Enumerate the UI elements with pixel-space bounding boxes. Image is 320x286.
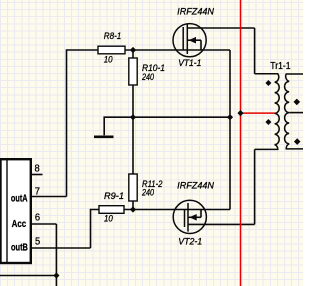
- svg-text:IRFZ44N: IRFZ44N: [177, 7, 214, 17]
- junction node red rail: [237, 110, 243, 116]
- transistor VT2: [173, 200, 254, 233]
- wire: bottom left horizontal: [0, 275, 56, 277]
- svg-text:VT2-1: VT2-1: [178, 236, 202, 246]
- wire: mid node down to R11: [132, 117, 134, 174]
- wire: R9 to VT2 gate row: [124, 209, 230, 211]
- wire: pin7 riser up to R8 row: [67, 50, 99, 197]
- wire: R8 output to VT1 gate row: [125, 49, 230, 51]
- svg-text:10: 10: [104, 55, 113, 65]
- wire: VT1 drain to transformer top: [254, 28, 256, 74]
- wire: center vertical VT1 source to VT2 source: [229, 50, 231, 210]
- svg-text:VT1-1: VT1-1: [178, 58, 201, 68]
- secondary polarity dot lower: [294, 138, 301, 145]
- red wire to transformer center tap: [241, 112, 275, 114]
- svg-text:7: 7: [35, 186, 41, 197]
- ground: [94, 135, 114, 138]
- wire: pin5 riser up to R9: [91, 210, 100, 249]
- svg-text:R8-1: R8-1: [104, 31, 122, 41]
- junction node mid divider: [130, 114, 136, 120]
- secondary polarity dot upper: [294, 99, 301, 106]
- wire: R10 bottom to mid node: [132, 85, 134, 117]
- red power rail vertical: [240, 0, 242, 286]
- svg-text:R9-1: R9-1: [104, 191, 124, 201]
- primary polarity dot lower: [265, 119, 271, 125]
- svg-text:240: 240: [141, 188, 154, 198]
- svg-text:10: 10: [104, 213, 113, 223]
- junction node R8/R10: [130, 47, 136, 53]
- pin 6 wire: [31, 223, 57, 225]
- pin 5 wire: [31, 247, 91, 249]
- svg-text:Tr1-1: Tr1-1: [270, 61, 291, 72]
- svg-text:6: 6: [35, 213, 41, 224]
- resistor R9-1: [99, 206, 124, 214]
- resistor R10-1: [129, 58, 137, 85]
- svg-text:outB: outB: [11, 243, 28, 254]
- resistor R8-1: [98, 46, 125, 54]
- svg-text:outA: outA: [11, 194, 28, 205]
- junction node R9/R11: [130, 206, 136, 212]
- wire: VT2 drain to transformer bottom: [254, 149, 256, 224]
- wire: down to R10: [132, 50, 134, 58]
- transformer Tr1-1 primary winding (with top/bottom leads): [255, 74, 280, 150]
- svg-text:IRFZ44N: IRFZ44N: [177, 181, 214, 191]
- svg-text:Acc: Acc: [12, 219, 27, 230]
- transformer Tr1-1 secondary winding (with top/bottom leads): [285, 74, 303, 149]
- junction node center vertical: [227, 114, 233, 120]
- transistor VT1: [173, 24, 255, 57]
- svg-text:240: 240: [141, 72, 154, 82]
- svg-text:5: 5: [35, 236, 41, 247]
- pin 8 stub: [31, 174, 43, 176]
- IC U1 inner divider: [6, 160, 8, 263]
- wire: R11 bottom to R9 row node: [132, 201, 134, 210]
- svg-text:8: 8: [35, 163, 41, 174]
- junction node pin6 wire: [53, 272, 59, 278]
- wire: mid node to ground branch: [104, 117, 133, 135]
- pin 7 wire to riser: [31, 196, 67, 198]
- wire: pin6 drop to bottom edge: [55, 224, 57, 286]
- resistor R11-2: [129, 174, 137, 201]
- wire: mid node to center vertical: [133, 116, 230, 118]
- primary polarity dot upper: [265, 80, 271, 86]
- IC U1 body (partially off-canvas left): [1, 159, 31, 263]
- secondary tap lead mid: [289, 112, 303, 114]
